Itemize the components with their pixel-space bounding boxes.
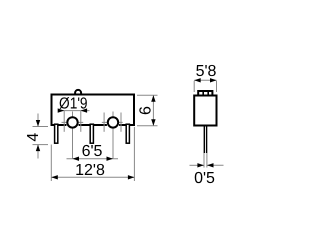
svg-text:6'5: 6'5 xyxy=(82,143,103,160)
svg-text:12'8: 12'8 xyxy=(75,162,105,179)
svg-text:5'8: 5'8 xyxy=(196,63,217,80)
svg-text:0'5: 0'5 xyxy=(194,170,215,187)
svg-text:4: 4 xyxy=(25,133,42,142)
svg-text:Ø1'9: Ø1'9 xyxy=(59,96,88,113)
svg-text:6: 6 xyxy=(138,106,155,115)
